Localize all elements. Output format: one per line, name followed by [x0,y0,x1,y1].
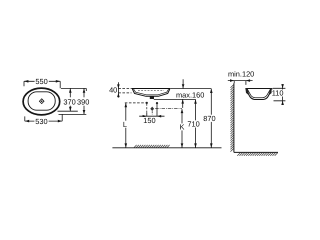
svg-text:530: 530 [35,117,47,126]
svg-text:150: 150 [143,116,155,125]
svg-text:110: 110 [272,89,284,98]
svg-text:390: 390 [77,97,89,106]
svg-text:L: L [123,120,127,129]
svg-text:min.120: min.120 [228,70,254,79]
svg-text:40: 40 [109,86,117,95]
svg-text:870: 870 [203,114,215,123]
svg-text:K: K [180,123,185,132]
svg-text:max.160: max.160 [176,91,204,100]
svg-text:710: 710 [187,120,199,129]
svg-text:550: 550 [35,77,47,86]
svg-text:370: 370 [63,97,75,106]
